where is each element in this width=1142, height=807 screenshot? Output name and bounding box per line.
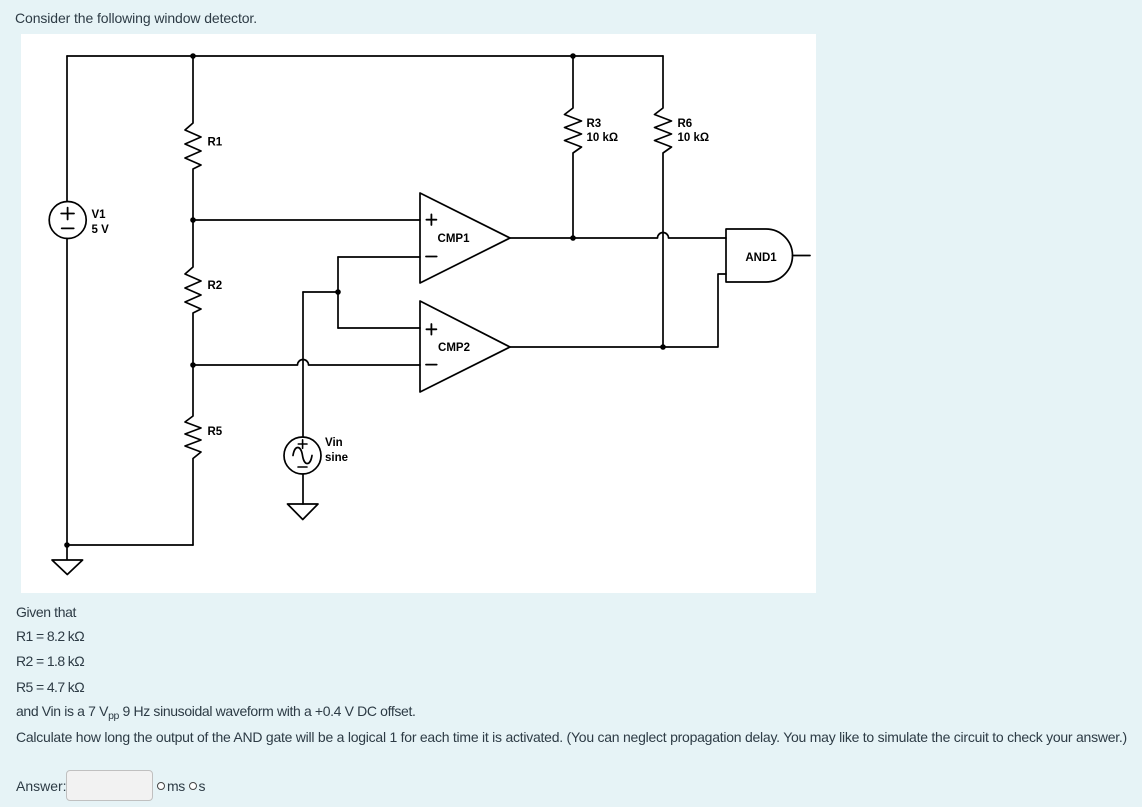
svg-text:R1: R1 [208, 137, 223, 149]
svg-text:CMP2: CMP2 [438, 342, 470, 354]
svg-text:Vin: Vin [325, 437, 343, 449]
svg-text:R6: R6 [678, 118, 693, 130]
svg-text:10 kΩ: 10 kΩ [678, 132, 710, 144]
svg-text:10 kΩ: 10 kΩ [587, 132, 619, 144]
svg-text:sine: sine [325, 452, 348, 464]
svg-text:CMP1: CMP1 [438, 233, 471, 245]
svg-text:R3: R3 [587, 118, 602, 130]
svg-text:R5: R5 [208, 426, 223, 438]
svg-text:5 V: 5 V [92, 224, 110, 236]
svg-text:V1: V1 [92, 209, 107, 221]
svg-text:AND1: AND1 [745, 252, 777, 264]
svg-text:R2: R2 [208, 280, 223, 292]
